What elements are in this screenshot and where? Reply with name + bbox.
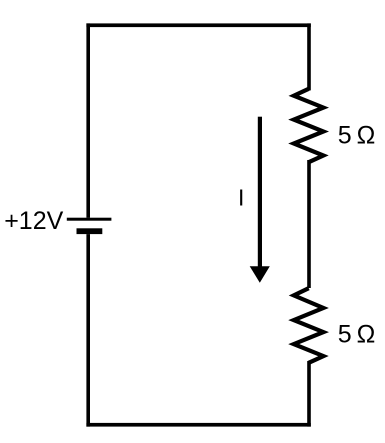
battery V1 plate negative: [77, 228, 103, 234]
svg-text:5: 5: [338, 121, 352, 149]
wire right lower: [307, 361, 311, 427]
current arrow I shaft: [258, 117, 262, 269]
svg-text:+12V: +12V: [4, 207, 63, 235]
svg-text:5: 5: [338, 320, 352, 348]
resistor R1: [294, 89, 324, 162]
wire bottom: [86, 423, 310, 427]
wire right middle: [307, 160, 311, 288]
svg-text:Ω: Ω: [357, 121, 376, 149]
current arrow I head: [250, 266, 270, 282]
wire right upper: [307, 23, 311, 90]
svg-text:Ω: Ω: [357, 320, 376, 348]
resistor R2: [294, 288, 324, 363]
wire left lower: [86, 234, 90, 427]
wire top: [86, 23, 310, 27]
svg-text:I: I: [238, 184, 244, 210]
battery V1 plate positive: [67, 218, 112, 221]
wire left upper: [86, 23, 90, 217]
